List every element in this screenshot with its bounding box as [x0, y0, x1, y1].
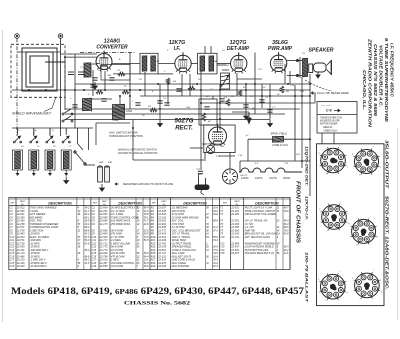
ground main	[64, 177, 69, 184]
wire horizontals	[12, 52, 315, 161]
svg-text:33 M OHM: 33 M OHM	[111, 265, 124, 268]
capacitor C10 inside tone box	[204, 107, 209, 109]
svg-text:DET-AMP: DET-AMP	[227, 46, 250, 52]
tone control box	[199, 99, 217, 125]
tube socket 50Z7G (bottom view)	[351, 218, 377, 244]
svg-text:22-618: 22-618	[16, 265, 25, 268]
svg-text:ANT. SECTION GANG: ANT. SECTION GANG	[244, 236, 270, 239]
band coil unit box	[29, 150, 39, 170]
svg-text:C19: C19	[92, 265, 97, 268]
coil field coil	[273, 136, 284, 142]
ground under electrolytics	[100, 184, 105, 191]
svg-text:22-284: 22-284	[230, 213, 239, 216]
svg-text:22-438: 22-438	[157, 265, 166, 268]
resistor R9	[188, 86, 195, 90]
wire verticals	[34, 46, 315, 196]
wire coil to ground bus	[65, 170, 67, 173]
switch S1 (aux)	[62, 109, 73, 115]
svg-text:PLUG VIB. METER HERE: PLUG VIB. METER HERE	[317, 91, 349, 95]
svg-text:22-873: 22-873	[230, 252, 239, 255]
tiny reference labels	[18, 50, 305, 177]
svg-text:91-6: 91-6	[213, 213, 218, 216]
coil T2 primary	[200, 56, 205, 72]
rotated label tube list left	[305, 146, 310, 303]
capacitor C12 line	[198, 171, 203, 173]
svg-text:Models 6P418, 6P419, 6P486 6P4: Models 6P418, 6P419, 6P486 6P429, 6P430,…	[11, 286, 304, 297]
coil L6 band coil	[47, 151, 53, 169]
resistor R10	[238, 90, 242, 96]
svg-text:PART: PART	[235, 200, 241, 203]
wires warning box to panel	[322, 133, 334, 144]
dial lamp	[206, 145, 214, 153]
svg-text:T10: T10	[220, 236, 225, 239]
svg-text:100-79 BALLAST: 100-79 BALLAST	[305, 252, 310, 303]
svg-text:CHASSIS No. 5682: CHASSIS No. 5682	[124, 302, 191, 307]
socket pin number labels	[318, 145, 382, 302]
svg-text:No.: No.	[103, 204, 107, 206]
capacitor C16	[90, 85, 95, 87]
resistor R7 inside tone box	[202, 113, 206, 121]
svg-text:C8A: C8A	[155, 60, 160, 63]
svg-text:18A: 18A	[107, 74, 111, 77]
svg-text:R19: R19	[151, 265, 156, 268]
volume control R6	[221, 73, 230, 89]
wave switch diagonal unit	[74, 143, 95, 165]
ground g3	[244, 112, 249, 119]
svg-text:PU: PU	[252, 108, 255, 110]
ground g2	[158, 120, 163, 127]
tube V1 12A8G converter	[96, 51, 112, 72]
label 35L6G PWR AMP	[268, 40, 293, 52]
svg-text:74-3: 74-3	[213, 239, 218, 242]
svg-text:CONE & COIL: CONE & COIL	[272, 144, 289, 147]
capacitor C7	[135, 103, 140, 105]
svg-text:15A: 15A	[186, 106, 190, 109]
svg-text:No.: No.	[236, 204, 240, 206]
tube V4 35L6G power output	[270, 52, 286, 73]
svg-text:VOLTAGE DOUBLER A.C.: VOLTAGE DOUBLER A.C.	[379, 45, 384, 107]
svg-text:AUX. SWITCH SHOWN: AUX. SWITCH SHOWN	[108, 131, 138, 135]
label SPEAKER	[308, 48, 333, 54]
capacitor C14	[259, 100, 264, 102]
svg-text:I.F.: I.F.	[174, 46, 181, 52]
svg-text:250 MMFD MICA: 250 MMFD MICA	[110, 223, 131, 226]
capacitor C17	[72, 105, 77, 107]
table column 1 rows	[10, 207, 91, 269]
loop antenna wavemagnet L1 (spiral)	[22, 48, 57, 91]
svg-text:MOTOR UNDER: MOTOR UNDER	[320, 124, 338, 126]
svg-text:RECT.: RECT.	[175, 126, 193, 132]
svg-text:21: 21	[77, 229, 81, 232]
svg-text:1: 1	[381, 291, 382, 293]
tube V3 12Q7G detector/first audio	[231, 52, 247, 73]
coil L5 band coil	[31, 151, 37, 169]
svg-text:No.: No.	[162, 204, 166, 206]
leader to meter note	[305, 80, 332, 91]
rectifier box outline	[204, 125, 235, 153]
svg-text:I.F. FREQUENCY 455KC: I.F. FREQUENCY 455KC	[390, 43, 395, 98]
svg-text:THESE FILTER CON.: THESE FILTER CON.	[320, 118, 343, 120]
rotated title block	[362, 38, 395, 128]
band coil unit box	[13, 150, 23, 170]
svg-text:12K7G: 12K7G	[255, 177, 263, 180]
capacitor C6	[101, 99, 106, 101]
svg-text:1: 1	[380, 167, 381, 169]
wire field coil	[248, 138, 310, 140]
svg-text:PART: PART	[102, 200, 108, 203]
svg-text:DESCRIPTION: DESCRIPTION	[48, 201, 72, 205]
svg-text:35-6: 35-6	[144, 265, 149, 268]
svg-text:SPKR. FIELD: SPKR. FIELD	[271, 132, 287, 136]
svg-text:24-6: 24-6	[143, 223, 149, 226]
capacitor C13	[243, 105, 248, 107]
svg-text:HOLDING BRACKETS (7): HOLDING BRACKETS (7)	[245, 252, 274, 255]
svg-text:PART: PART	[20, 200, 26, 203]
svg-text:25A: 25A	[212, 60, 217, 63]
band coil unit box	[61, 150, 71, 170]
coil T1 primary	[142, 56, 147, 72]
label SPKR FIELD	[271, 132, 287, 136]
shield box (dashed) around wavemagnet	[11, 44, 65, 97]
svg-text:PART: PART	[161, 200, 167, 203]
svg-text:DIAL POINTER: DIAL POINTER	[172, 265, 190, 268]
coil T1 secondary	[151, 56, 156, 72]
band switch contact S4	[30, 128, 38, 143]
scan edge right	[397, 128, 399, 320]
svg-text:22-173: 22-173	[99, 223, 108, 226]
resistor R4	[166, 78, 170, 84]
svg-text:37-1: 37-1	[213, 229, 218, 232]
switch S2	[62, 116, 73, 122]
capacitor C15	[267, 110, 272, 112]
note aux switch	[108, 131, 143, 139]
band switch contact S5	[46, 128, 54, 143]
tube socket 35L6G (bottom view)	[353, 148, 379, 174]
svg-text:12K7G-I.F.: 12K7G-I.F.	[305, 196, 310, 220]
ground g4	[268, 120, 273, 127]
table column 2 rows	[92, 207, 150, 269]
parts table	[9, 198, 290, 270]
speaker symbol	[309, 61, 332, 79]
svg-text:12Q7G-2ND DET.: 12Q7G-2ND DET.	[305, 146, 310, 186]
svg-text:95-2: 95-2	[85, 249, 90, 252]
power plug	[195, 178, 209, 195]
svg-text:31-8: 31-8	[85, 262, 90, 265]
svg-text:CHASSIS NºS 5682 & 5686: CHASSIS NºS 5682 & 5686	[373, 44, 378, 117]
svg-text:CHICAGO, ILL.: CHICAGO, ILL.	[362, 70, 367, 110]
table column 4 rows	[220, 207, 289, 256]
capacitor C11	[157, 101, 162, 103]
wire spiral inner tap to circuit	[45, 61, 65, 63]
svg-text:MOUNTED IN SPK: MOUNTED IN SPK	[320, 121, 340, 123]
svg-text:USED IN: USED IN	[323, 127, 333, 129]
svg-text:1: 1	[347, 166, 348, 168]
svg-text:35L6G: 35L6G	[283, 177, 290, 180]
coil L3 oscillator coil	[83, 98, 92, 111]
svg-text:12A8G: 12A8G	[241, 177, 249, 180]
svg-text:FRONT OF CHASSIS: FRONT OF CHASSIS	[295, 181, 301, 243]
tuning gang dash-dot link	[80, 52, 135, 54]
junction dots	[64, 56, 311, 162]
coil T3 oscillator transformer	[113, 104, 125, 120]
wire coil to ground bus	[49, 170, 51, 173]
svg-text:CONVERTER: CONVERTER	[96, 45, 128, 51]
svg-text:DESCRIPTION: DESCRIPTION	[183, 201, 207, 205]
svg-text:43-5: 43-5	[284, 233, 289, 236]
svg-text:~~~ ~~~~: ~~~ ~~~~	[321, 105, 332, 108]
antenna terminal G	[58, 34, 63, 52]
scan edge left	[2, 30, 4, 322]
svg-text:85-8: 85-8	[213, 220, 218, 223]
IF transformer T1	[140, 53, 158, 74]
table headers	[10, 200, 279, 206]
label 50Z7G RECT	[175, 118, 194, 132]
coil T4 output transformer	[303, 58, 308, 77]
capacitor C1	[92, 78, 97, 80]
resistor R3	[150, 108, 157, 112]
electrolytic capacitor 44B	[105, 166, 110, 182]
svg-text:21: 21	[205, 249, 209, 252]
svg-text:53-5: 53-5	[144, 239, 149, 242]
label 12A8G CONVERTER	[96, 39, 128, 51]
svg-text:+35862 ONLY: +35862 ONLY	[323, 130, 338, 132]
svg-text:T15: T15	[220, 252, 225, 255]
svg-text:35L6G-OUTPUT: 35L6G-OUTPUT	[385, 140, 390, 189]
band coil unit box	[45, 150, 55, 170]
capacitor C2	[109, 78, 114, 80]
svg-text:.01 MFD 600 V: .01 MFD 600 V	[30, 265, 47, 268]
resistor R8	[280, 86, 284, 93]
wire plate to output transformer	[287, 57, 303, 78]
trimmer capacitors row	[68, 72, 84, 75]
svg-text:REGISTER GROUND TO FRONT PLATE: REGISTER GROUND TO FRONT PLATE	[123, 182, 173, 186]
svg-text:No.: No.	[21, 204, 25, 206]
antenna terminal A	[15, 34, 20, 136]
capacitor C8	[164, 103, 169, 105]
svg-text:1: 1	[377, 237, 378, 239]
wire plug to circuit	[199, 119, 202, 178]
heater string wavy wire	[239, 168, 302, 172]
phono jack arrow P.U.	[247, 112, 251, 124]
svg-text:C-9: C-9	[326, 109, 332, 113]
tube V2 12K7G IF amplifier	[175, 52, 191, 73]
note battery 50 cy	[202, 142, 222, 146]
svg-text:SHOWN IN MANUAL POSITION: SHOWN IN MANUAL POSITION	[118, 151, 157, 155]
wire coil to ground bus	[33, 170, 35, 173]
svg-text:180A: 180A	[126, 109, 132, 113]
svg-text:50Z7G-RECT. 12A8G-DET.&OSC.: 50Z7G-RECT. 12A8G-DET.&OSC.	[385, 196, 390, 290]
warning box content	[320, 105, 343, 133]
capacitor C9	[219, 99, 224, 101]
tube socket 12K7G (bottom view)	[319, 273, 346, 300]
label 12K7G I.F.	[169, 40, 185, 52]
coil L7 band coil	[63, 151, 69, 169]
svg-text:22-152: 22-152	[230, 236, 239, 239]
tube socket 100-79 (bottom view)	[354, 272, 381, 299]
svg-text:50Z7G: 50Z7G	[175, 118, 194, 125]
svg-text:ZENITH RADIO CORPORATION: ZENITH RADIO CORPORATION	[368, 38, 373, 128]
svg-text:PWR.AMP: PWR.AMP	[268, 46, 293, 52]
coil L4 band coil	[15, 151, 21, 169]
note manual-automatic switch	[118, 148, 157, 156]
svg-text:SHIELD WAVEMAGNET: SHIELD WAVEMAGNET	[12, 112, 52, 116]
note register ground	[115, 182, 173, 186]
electrolytic capacitor 44A	[98, 166, 103, 182]
resistor R11	[122, 90, 129, 94]
svg-text:81-6: 81-6	[85, 242, 90, 245]
warning box	[317, 102, 357, 134]
svg-text:DESCRIPTION: DESCRIPTION	[118, 201, 142, 205]
band switch contact S3	[13, 128, 21, 143]
ballast tube 100-79	[223, 169, 238, 184]
socket panel outline	[317, 144, 385, 306]
wire coil to ground bus	[17, 170, 19, 173]
svg-text:OSCILLATOR COIL ASSEM.: OSCILLATOR COIL ASSEM.	[245, 213, 277, 216]
label 12Q7G DET-AMP	[227, 40, 250, 52]
svg-text:C19: C19	[10, 265, 15, 268]
resistor R5	[226, 99, 230, 106]
tube socket 12A8G (bottom view)	[320, 147, 347, 174]
heater labels	[241, 177, 290, 180]
IF transformer T2	[198, 53, 218, 74]
svg-text:29-6: 29-6	[283, 210, 289, 213]
svg-text:1: 1	[346, 293, 347, 295]
capacitor C18	[176, 89, 181, 91]
extra junction dots	[28, 83, 311, 129]
svg-text:MANUAL-AUTOMATIC SWITCH: MANUAL-AUTOMATIC SWITCH	[118, 148, 157, 152]
svg-text:180A: 180A	[113, 119, 119, 122]
coil L2 antenna coil	[84, 63, 91, 78]
label SHIELD WAVEMAGNET	[12, 97, 56, 116]
note plug vib meter here	[311, 91, 349, 95]
svg-text:SPEAKER: SPEAKER	[308, 48, 333, 54]
svg-text:DESCRIPTION: DESCRIPTION	[255, 201, 279, 205]
table column 3 rows	[151, 207, 219, 269]
svg-text:22-545: 22-545	[99, 265, 108, 268]
tuning gang box	[101, 65, 130, 81]
tube V5 50Z7G rectifier	[209, 124, 227, 147]
svg-text:44B: 44B	[108, 161, 112, 164]
svg-text:47B: 47B	[296, 153, 300, 156]
svg-text:6 TUBE SUPERHETERODYNE: 6 TUBE SUPERHETERODYNE	[384, 38, 389, 123]
ground at C1	[93, 82, 98, 89]
svg-text:IN BROADCAST POSITION: IN BROADCAST POSITION	[109, 134, 143, 138]
coil T2 secondary	[209, 56, 214, 72]
band switch contact S6	[62, 128, 70, 143]
tube socket 12Q7G (bottom view)	[321, 204, 348, 231]
svg-text:12Q7G: 12Q7G	[269, 177, 277, 180]
svg-text:44A: 44A	[99, 161, 103, 164]
resistor R2	[96, 90, 103, 94]
resistor R1	[118, 72, 125, 76]
svg-text:11-6: 11-6	[284, 252, 289, 255]
svg-text:67-3: 67-3	[213, 265, 218, 268]
